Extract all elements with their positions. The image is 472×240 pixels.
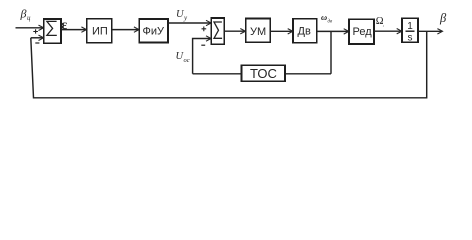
node Uy label	[176, 9, 188, 22]
node beta_c input label	[20, 7, 32, 22]
wire UM to Dv	[270, 29, 292, 34]
block Dv	[293, 19, 317, 43]
wire Red to integrator	[374, 29, 402, 34]
block integrator 1/s	[402, 18, 418, 43]
wire FiU to summer S2	[168, 20, 211, 25]
wire Dv to Red with junction	[317, 29, 349, 34]
summer U1 (Sigma)	[44, 19, 61, 43]
svg-text:ос: ос	[184, 57, 190, 64]
block IP	[87, 19, 112, 43]
plus sign at S2 input	[202, 27, 207, 32]
svg-text:дв: дв	[328, 19, 334, 24]
svg-text:Ред: Ред	[353, 26, 373, 38]
summer U2 (Sigma)	[211, 18, 224, 44]
node omega_dv label	[321, 12, 333, 25]
svg-text:ω: ω	[321, 12, 327, 22]
node Uoc label	[176, 51, 190, 64]
svg-text:ɛ: ɛ	[61, 18, 67, 33]
wire outer feedback loop	[31, 31, 427, 98]
wire input to summer S1	[16, 25, 44, 30]
svg-text:s: s	[408, 33, 413, 44]
wire S2 to UM	[224, 29, 245, 34]
svg-text:,: ,	[383, 23, 384, 28]
block UM	[246, 19, 271, 43]
block TOS	[242, 65, 286, 81]
svg-text:β: β	[439, 11, 447, 25]
svg-text:ФиУ: ФиУ	[143, 26, 166, 38]
svg-text:1: 1	[407, 21, 413, 32]
block FiU	[139, 19, 168, 43]
wire integrator to output with junction	[418, 29, 443, 34]
wire outer feedback into summer S1	[31, 35, 44, 40]
svg-text:ц: ц	[27, 14, 31, 22]
svg-text:β: β	[20, 7, 27, 21]
node Omega label	[376, 16, 384, 28]
svg-text:УМ: УМ	[250, 26, 266, 38]
wire junction down to inner loop	[330, 31, 332, 73]
svg-text:ИП: ИП	[92, 26, 108, 38]
svg-text:ТОС: ТОС	[250, 66, 277, 81]
svg-text:Дв: Дв	[298, 26, 311, 38]
minus sign at S2 feedback input	[201, 44, 205, 46]
wire S1 to IP	[61, 27, 87, 32]
wire TOS feedback into summer S2	[193, 36, 212, 74]
plus sign at S1 input	[33, 29, 38, 33]
wire inner loop right segment from junction to TOS	[285, 73, 331, 75]
wire IP to FiU	[112, 27, 139, 32]
minus sign at S1 feedback input	[35, 42, 39, 44]
wire TOS to inner loop left vertical	[193, 73, 242, 75]
block Red	[349, 19, 374, 44]
